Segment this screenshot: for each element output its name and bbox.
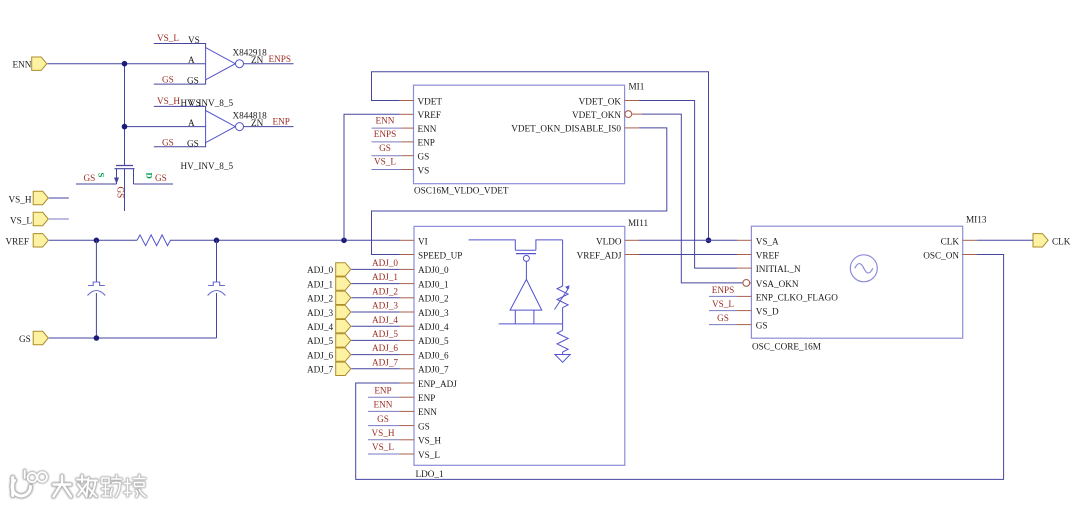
port ADJ_2 [307, 291, 351, 304]
port GS [19, 331, 48, 344]
svg-text:D: D [145, 173, 155, 179]
svg-text:VS_H: VS_H [372, 428, 395, 438]
svg-text:VS: VS [189, 98, 201, 108]
pin VS_A of MI13 [737, 236, 779, 246]
svg-text:ADJ_3: ADJ_3 [372, 301, 398, 311]
pin VREF of MI1 [400, 110, 442, 120]
svg-text:ADJ_5: ADJ_5 [307, 336, 333, 346]
svg-text:CLK: CLK [1052, 237, 1071, 247]
pin ENP_ADJ of MI11 [400, 379, 458, 389]
wire ADJ_1 [351, 283, 399, 285]
wire ADJ_6 [351, 354, 399, 356]
svg-text:VREF_ADJ: VREF_ADJ [577, 251, 622, 261]
pin VDET_OKN_DISABLE_IS0 of MI1 [511, 124, 639, 134]
svg-text:ADJ_7: ADJ_7 [307, 365, 333, 375]
svg-text:ADJ0_4: ADJ0_4 [418, 322, 449, 332]
svg-text:GS: GS [418, 152, 430, 162]
capacitor C2 (MOS cap) [208, 240, 226, 338]
interior: pass transistor MP of LDO [469, 240, 563, 262]
svg-text:ADJ_3: ADJ_3 [307, 308, 333, 318]
svg-text:VS_L: VS_L [712, 299, 734, 309]
junction GS rail at C1 [94, 335, 100, 341]
svg-text:ADJ_6: ADJ_6 [372, 343, 398, 353]
port ENN [13, 57, 47, 70]
svg-text:VS_H: VS_H [9, 194, 32, 204]
port ADJ_1 [307, 277, 351, 290]
pin VREF_ADJ of MI11 [577, 251, 639, 261]
pin VI of MI11 [400, 236, 428, 246]
svg-text:A: A [188, 118, 195, 128]
wire ZN output of X844818 (net ENP) [244, 126, 294, 128]
wire ENN to inverter A inputs [47, 64, 205, 166]
svg-text:VDET_OK: VDET_OK [579, 96, 622, 106]
svg-text:VDET: VDET [418, 96, 443, 106]
wire drain of M0 (net GS) [134, 183, 174, 185]
pin CLK of MI13 [941, 236, 977, 246]
wire VDET_OKN to VSA_OKN of MI13 [642, 114, 743, 283]
svg-text:VS_L: VS_L [157, 33, 179, 43]
svg-text:ZN: ZN [251, 118, 264, 128]
wire VDET_OKN_DISABLE_IS0 to SPEED_UP of MI11 [372, 128, 667, 255]
svg-text:VDET_OKN_DISABLE_IS0: VDET_OKN_DISABLE_IS0 [511, 124, 621, 134]
wire ZN output of X842918 (net ENPS) [244, 63, 294, 65]
wire GS label stub of MI1 [372, 155, 403, 157]
svg-text:ENPS: ENPS [269, 54, 291, 64]
svg-text:ZN: ZN [251, 55, 264, 65]
svg-text:ADJ_4: ADJ_4 [307, 322, 333, 332]
svg-text:VS_H: VS_H [418, 436, 441, 446]
wire VDET to top rail to VS_A junction [372, 72, 709, 241]
svg-text:ADJ_1: ADJ_1 [372, 272, 398, 282]
wire VREF_ADJ to VREF of MI13 [639, 254, 737, 256]
wire ADJ_7 [351, 368, 399, 370]
pin VS_L of MI11 [400, 450, 441, 460]
port VS_H [9, 191, 49, 204]
junction VREF at cap C2 [214, 238, 220, 244]
wire source of M0 (net GS) [76, 183, 117, 185]
block MI11 LDO_1 body [414, 226, 625, 465]
pin ENP of MI11 [400, 393, 436, 403]
pin GS of MI13 [737, 321, 767, 331]
interior: resistor RF [557, 324, 568, 355]
wire VS_L stub [49, 218, 69, 220]
svg-text:ENP: ENP [418, 393, 435, 403]
pin ADJ0_6 of MI11 [400, 350, 450, 360]
svg-text:ENPS: ENPS [374, 129, 396, 139]
svg-text:ADJ0_2: ADJ0_2 [418, 294, 449, 304]
svg-text:ADJ0_3: ADJ0_3 [418, 308, 449, 318]
wire OSC_ON loop to ENP_ADJ [356, 255, 1004, 480]
port ADJ_7 [307, 362, 351, 375]
interior: error amplifier (opamp triangle) [510, 261, 542, 324]
svg-text:HV_INV_8_5: HV_INV_8_5 [181, 161, 234, 171]
junction VREF at cap C1 [94, 238, 100, 244]
pin ADJ0_4 of MI11 [400, 322, 450, 332]
svg-text:ADJ_1: ADJ_1 [307, 279, 333, 289]
port ADJ_0 [307, 263, 351, 276]
svg-text:VDET_OKN: VDET_OKN [572, 110, 621, 120]
svg-text:ADJ_7: ADJ_7 [372, 357, 398, 367]
wire VS pin of X844818 [154, 106, 206, 110]
port ADJ_3 [307, 305, 351, 318]
wire VS_H label stub of MI11 [368, 439, 400, 441]
port ADJ_5 [307, 334, 351, 347]
svg-text:GS: GS [162, 75, 174, 85]
wire ADJ_5 [351, 339, 399, 341]
port VREF [6, 234, 49, 247]
svg-text:GS: GS [84, 173, 96, 183]
svg-text:CLK: CLK [941, 236, 960, 246]
junction on ENN net at inverter 2 input [122, 124, 128, 130]
svg-text:ADJ_2: ADJ_2 [372, 286, 398, 296]
svg-text:GS: GS [377, 414, 389, 424]
junction VREF into MI1 [341, 238, 347, 244]
wire VREF rail [49, 239, 400, 241]
wire VREF of MI1 down to VREF rail [344, 114, 400, 240]
svg-text:ADJ0_0: ADJ0_0 [418, 265, 449, 275]
junction top rail into VLDO net [706, 238, 712, 244]
svg-text:ENP_ADJ: ENP_ADJ [418, 379, 457, 389]
svg-text:VS: VS [188, 35, 200, 45]
wire CLK to port [977, 239, 1033, 241]
wire VLDO to VS_A [639, 239, 737, 241]
svg-text:VREF: VREF [756, 251, 780, 261]
wire ADJ_3 [351, 311, 399, 313]
port VS_L [10, 212, 48, 225]
wire GS pin of X842918 [154, 80, 206, 84]
wire ADJ_2 [351, 297, 399, 299]
pin SPEED_UP of MI11 [400, 251, 463, 261]
svg-text:S: S [97, 173, 107, 178]
svg-text:VS_L: VS_L [374, 157, 396, 167]
svg-text:VREF: VREF [6, 237, 30, 247]
svg-text:OSC16M_VLDO_VDET: OSC16M_VLDO_VDET [414, 186, 509, 196]
svg-text:INITIAL_N: INITIAL_N [756, 264, 801, 274]
pin OSC_ON of MI13 [923, 251, 977, 261]
svg-text:GS: GS [19, 334, 31, 344]
wire ENPS label stub of MI1 [372, 141, 403, 143]
svg-text:ENP: ENP [273, 117, 290, 127]
wire ENPS label stub of MI13 [709, 295, 737, 297]
svg-text:VREF: VREF [418, 110, 442, 120]
svg-text:ENN: ENN [418, 124, 437, 134]
svg-text:ENP_CLKO_FLAGO: ENP_CLKO_FLAGO [756, 292, 839, 302]
svg-text:SPEED_UP: SPEED_UP [418, 251, 462, 261]
transistor M0 (NMOS, gate from ENN) [114, 166, 135, 212]
port CLK [1033, 234, 1071, 247]
port ADJ_6 [307, 348, 351, 361]
interior: ground symbol [555, 355, 570, 363]
svg-text:ADJ_2: ADJ_2 [307, 294, 333, 304]
wire VS_L label stub of MI11 [368, 453, 400, 455]
svg-text:OSC_ON: OSC_ON [923, 251, 959, 261]
svg-text:ENN: ENN [376, 115, 395, 125]
resistor R0 on VREF rail [137, 235, 171, 246]
svg-text:VS_L: VS_L [10, 215, 32, 225]
svg-text:VS: VS [418, 165, 430, 175]
junction on ENN net at inverter 1 input [122, 61, 128, 67]
wire GS pin of X844818 [154, 143, 206, 147]
svg-text:GS: GS [379, 143, 391, 153]
svg-text:ADJ_0: ADJ_0 [372, 258, 398, 268]
svg-text:VS_D: VS_D [756, 307, 779, 317]
pin INITIAL_N of MI13 [737, 264, 801, 274]
pin VLDO of MI11 [596, 236, 639, 246]
svg-text:VSA_OKN: VSA_OKN [756, 279, 799, 289]
svg-text:ENN: ENN [418, 407, 437, 417]
oscillator symbol (sine in circle) [850, 255, 877, 282]
svg-text:ENPS: ENPS [712, 285, 734, 295]
wire ENN label stub of MI1 [372, 127, 403, 129]
svg-text:GS: GS [756, 321, 768, 331]
port ADJ_4 [307, 320, 351, 333]
svg-text:ENP: ENP [418, 138, 435, 148]
pin ENN of MI1 [402, 124, 437, 134]
svg-text:ADJ0_1: ADJ0_1 [418, 279, 449, 289]
svg-text:OSC_CORE_16M: OSC_CORE_16M [752, 342, 821, 352]
svg-text:VS_L: VS_L [372, 442, 394, 452]
wire ENN label stub of MI11 [368, 410, 400, 412]
svg-text:VS_H: VS_H [157, 96, 180, 106]
svg-text:GS: GS [717, 313, 729, 323]
pin VDET_OKN of MI1 (with bubble) [572, 110, 642, 120]
svg-text:GS: GS [116, 187, 126, 199]
wire VS_L label stub of MI13 [709, 310, 737, 312]
svg-text:ADJ_5: ADJ_5 [372, 329, 398, 339]
pin ENN of MI11 [400, 407, 438, 417]
pin ENP_CLKO_FLAGO of MI13 [737, 292, 838, 302]
capacitor C1 (MOS cap) [88, 240, 106, 338]
svg-text:ADJ0_5: ADJ0_5 [418, 336, 449, 346]
inverter X844818 HV_INV_8_5 [206, 111, 244, 143]
pin VS_H of MI11 [400, 436, 442, 446]
svg-text:ENN: ENN [374, 400, 393, 410]
svg-text:VLDO: VLDO [596, 236, 622, 246]
pin VS of MI1 [402, 165, 429, 175]
svg-text:GS: GS [162, 138, 174, 148]
svg-text:LDO_1: LDO_1 [416, 469, 444, 479]
svg-text:MI11: MI11 [628, 218, 648, 228]
pin ADJ0_3 of MI11 [400, 308, 450, 318]
svg-text:VS_A: VS_A [756, 236, 779, 246]
pin ADJ0_2 of MI11 [400, 294, 450, 304]
svg-text:ADJ0_7: ADJ0_7 [418, 365, 449, 375]
svg-text:GS: GS [187, 76, 199, 86]
pin ENP of MI1 [402, 138, 435, 148]
pin VREF of MI13 [737, 251, 779, 261]
wire VDET_OK to INITIAL_N of MI13 [639, 101, 737, 269]
svg-text:ADJ_4: ADJ_4 [372, 315, 398, 325]
pin ADJ0_7 of MI11 [400, 365, 450, 375]
pin ADJ0_5 of MI11 [400, 336, 450, 346]
svg-text:ADJ_6: ADJ_6 [307, 350, 333, 360]
interior: variable resistor RV [555, 240, 570, 324]
pin VDET_OK of MI1 [579, 96, 639, 106]
inverter X842918 HV_INV_8_5 [206, 48, 244, 80]
wire VS_L label stub of MI1 [372, 169, 403, 171]
svg-text:GS: GS [187, 138, 199, 148]
wire GS label stub of MI11 [368, 425, 400, 427]
pin VDET of MI1 [400, 96, 443, 106]
interior: feedback rail [499, 323, 563, 325]
svg-text:MI1: MI1 [629, 82, 645, 92]
wire GS rail [49, 337, 217, 339]
pin VSA_OKN of MI13 (with bubble) [743, 279, 799, 289]
pin GS of MI11 [400, 421, 430, 431]
svg-text:VS_L: VS_L [418, 450, 440, 460]
svg-text:GS: GS [418, 421, 430, 431]
wire VS pin of X842918 [154, 44, 206, 48]
block MI1 OSC16M_VLDO_VDET body [414, 85, 625, 184]
pin ADJ0_1 of MI11 [400, 279, 450, 289]
svg-text:MI13: MI13 [966, 215, 987, 225]
svg-text:VI: VI [418, 236, 428, 246]
wire GS label stub of MI13 [709, 324, 737, 326]
wire ADJ_0 [351, 268, 399, 270]
svg-text:A: A [188, 55, 195, 65]
wire VS_H stub [49, 197, 69, 199]
wire ADJ_4 [351, 325, 399, 327]
svg-text:ENN: ENN [13, 60, 32, 70]
pin VS_D of MI13 [737, 307, 779, 317]
svg-text:ADJ0_6: ADJ0_6 [418, 350, 449, 360]
svg-text:ADJ_0: ADJ_0 [307, 265, 333, 275]
block MI13 OSC_CORE_16M body [751, 226, 962, 338]
pin ADJ0_0 of MI11 [400, 265, 450, 275]
svg-text:GS: GS [155, 173, 167, 183]
wire ENP label stub of MI11 [368, 396, 400, 398]
svg-text:ENP: ENP [374, 385, 391, 395]
pin GS of MI1 [402, 152, 429, 162]
